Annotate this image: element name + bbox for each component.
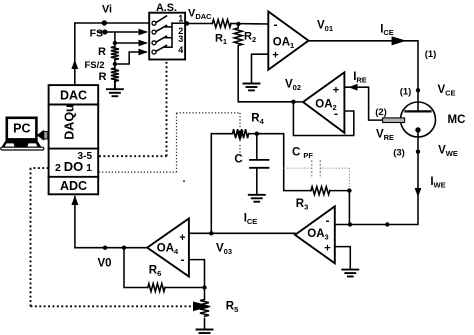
svg-text:(3): (3)	[393, 148, 405, 159]
node FS	[102, 29, 107, 34]
wire OA1 + to ground	[252, 54, 269, 83]
wire V0 down to R6	[124, 248, 148, 288]
resistor R3	[311, 187, 330, 195]
wire DAC up to Vi	[71, 23, 104, 85]
wire tap to A.S. input 3	[115, 42, 146, 44]
resistor R2	[234, 24, 242, 46]
ground C	[249, 195, 265, 202]
switch 3	[152, 41, 156, 45]
resistor R5	[204, 288, 206, 300]
node R1/R2	[236, 22, 240, 26]
junction R3 branch	[348, 222, 352, 226]
switch 2	[152, 30, 156, 34]
node V02	[291, 100, 295, 104]
svg-text:DAC: DAC	[60, 89, 87, 103]
svg-text:4: 4	[178, 45, 183, 55]
node V0 terminal	[103, 246, 107, 250]
junction R3/C_PF	[347, 188, 351, 192]
dotted control 3-5 to A.S.	[99, 60, 167, 157]
output bus	[171, 23, 173, 47]
OA2 feedback loop	[293, 102, 353, 136]
svg-text:2 DO 1: 2 DO 1	[55, 159, 92, 174]
svg-text:+: +	[179, 232, 185, 244]
wire VDAC to R1	[185, 23, 212, 25]
capacitor C	[250, 134, 269, 195]
wire R3 to OA3 - node	[330, 190, 350, 192]
arrow R5 wiper	[193, 302, 212, 312]
junction on OA3 inverting line	[385, 222, 389, 226]
svg-text:FS/2: FS/2	[84, 60, 104, 71]
wire V01 to MC	[309, 41, 419, 91]
capacitor CPF (dotted)	[284, 168, 350, 188]
svg-text:+: +	[333, 85, 339, 97]
node Vi	[102, 20, 107, 25]
arrow ICE	[392, 36, 407, 45]
wire OA3 out to OA4 + (V03)	[189, 232, 295, 234]
switch 4	[152, 50, 156, 54]
ground R5	[197, 330, 213, 335]
svg-text:+: +	[272, 50, 278, 62]
wire OA4 - feedback	[189, 260, 205, 288]
junction R6/R5	[202, 285, 206, 289]
node VDAC	[185, 21, 189, 25]
wire R4 to node	[249, 133, 257, 135]
svg-text:-: -	[326, 214, 330, 228]
junction V0/R6	[122, 246, 126, 250]
svg-text:3: 3	[178, 34, 183, 44]
svg-text:+: +	[324, 243, 330, 255]
wire WE down to OA3 -	[335, 152, 418, 225]
svg-text:-: -	[334, 107, 338, 121]
PC laptop	[1, 118, 44, 150]
resistor R (lower)	[111, 68, 119, 81]
node V03 junction	[209, 231, 213, 235]
resistor R (upper)	[111, 47, 119, 60]
arrow into ADC	[71, 196, 78, 206]
wire OA4 out to ADC (V0)	[75, 197, 147, 248]
wire OA2 output	[293, 101, 303, 103]
svg-text:-: -	[274, 18, 278, 32]
svg-text:MC: MC	[448, 114, 466, 126]
op-amp OA1	[268, 12, 308, 70]
svg-text:A.S.: A.S.	[156, 2, 177, 14]
wire R2 to V02 node	[238, 46, 293, 102]
op-amp OA4	[147, 219, 189, 277]
ground divider	[107, 81, 123, 96]
resistor R1	[212, 20, 231, 28]
svg-text:(2): (2)	[375, 107, 387, 118]
svg-text:DAQu: DAQu	[63, 104, 77, 139]
svg-text:PC: PC	[13, 122, 30, 136]
svg-text:1: 1	[178, 14, 183, 24]
svg-text:(1): (1)	[400, 87, 412, 98]
svg-text:ADC: ADC	[60, 179, 87, 193]
ground OA3	[342, 270, 358, 277]
wire node right and down to R3	[257, 134, 311, 191]
svg-text:(1): (1)	[425, 49, 437, 60]
switch 1	[152, 21, 156, 25]
R4 wiper control (dotted from DO)	[99, 113, 240, 172]
svg-text:C: C	[234, 154, 242, 166]
svg-text:V0: V0	[97, 258, 111, 270]
MC cell	[383, 88, 436, 154]
node FS/2	[113, 62, 117, 66]
wire FS/2 to A.S. input 4	[115, 52, 146, 64]
wire V03 up to R4	[211, 134, 232, 234]
svg-text:FS: FS	[90, 28, 103, 40]
node divider top tap	[113, 41, 117, 45]
arrow R4 wiper	[236, 131, 243, 143]
op-amp OA2	[303, 72, 344, 132]
wire Vi to A.S. input 1	[104, 22, 149, 24]
ground OA1	[244, 84, 260, 91]
svg-text:R: R	[98, 46, 106, 58]
scan speck	[183, 180, 185, 182]
wire R1 to OA1	[231, 23, 268, 26]
wire IRE to OA2 +	[344, 87, 382, 120]
wire OA3 + to ground	[335, 247, 351, 270]
DAQu box	[49, 85, 99, 194]
plug connector laptop to DAQu	[37, 130, 48, 141]
op-amp OA3	[295, 206, 335, 263]
resistor R6	[148, 284, 165, 292]
arrow I_WE	[415, 188, 422, 197]
resistor R4	[233, 129, 249, 138]
wire FS to A.S. input 2	[99, 31, 146, 33]
svg-text:Vi: Vi	[102, 4, 112, 16]
node R4/C junction	[255, 132, 259, 136]
wire FS down to divider	[114, 32, 116, 47]
A.S. analog switch box	[149, 2, 185, 60]
dotted control DO to R5	[31, 168, 195, 306]
svg-text:-: -	[181, 253, 185, 267]
svg-text:R: R	[99, 71, 107, 83]
